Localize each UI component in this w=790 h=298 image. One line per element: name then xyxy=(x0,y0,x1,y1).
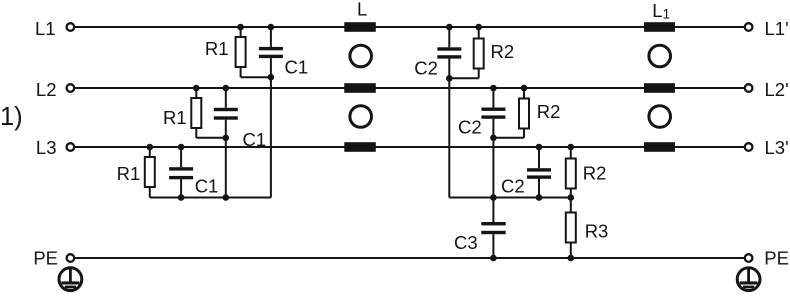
label PE left xyxy=(33,248,58,269)
node R1 top (L1) xyxy=(237,24,244,31)
label L1 left xyxy=(35,18,56,39)
resistor R1 (L1 stage 1) xyxy=(236,27,246,77)
node R1-C1 junction (L1) xyxy=(268,74,275,81)
capacitor C3 xyxy=(481,198,505,259)
wire L1 line xyxy=(75,26,744,28)
ground symbol right (protective earth) xyxy=(737,268,760,291)
resistor R3 xyxy=(566,198,576,259)
terminal L3 left xyxy=(67,143,75,151)
svg-text:L1: L1 xyxy=(35,18,56,39)
choke L1 winding L2 xyxy=(644,83,675,93)
choke L1 core circle upper xyxy=(649,45,671,67)
svg-text:L1: L1 xyxy=(652,0,670,22)
resistor R2 (L1 stage 2) xyxy=(474,27,484,78)
wire R2-C2 bottom (L1 stage 2) xyxy=(449,77,478,79)
label C3 xyxy=(454,232,478,253)
label 1) footnote xyxy=(0,103,23,131)
svg-text:C2: C2 xyxy=(458,117,482,138)
label R2 (L2 stage 2) xyxy=(537,101,561,122)
capacitor C1 (L2 stage 1) xyxy=(214,88,238,138)
svg-text:R2: R2 xyxy=(583,162,607,183)
label L2 left xyxy=(36,79,57,100)
svg-text:L2': L2' xyxy=(765,79,789,100)
node C2-R2 junction (L1) xyxy=(446,75,453,82)
choke L1 winding L1 xyxy=(644,22,675,32)
wire PE line xyxy=(75,257,744,259)
terminal L2' right xyxy=(745,84,753,92)
wire R1-C1 bottom (L2 stage 1) xyxy=(196,137,226,139)
node R2 top (L3) xyxy=(568,144,575,151)
svg-text:C2: C2 xyxy=(414,58,438,79)
wire drop C2 (L2) to bus 2 xyxy=(492,138,494,198)
label L3' right xyxy=(765,137,789,158)
choke L winding L3 xyxy=(344,142,376,152)
terminal PE right xyxy=(745,254,753,262)
node C1 top (L1) xyxy=(268,24,275,31)
choke L winding L2 xyxy=(344,83,376,93)
label L1' right xyxy=(765,18,789,39)
choke L core circle lower xyxy=(350,106,372,128)
wire drop C2 (L1) to bus 2 xyxy=(448,78,450,197)
capacitor C1 (L3 stage 1) xyxy=(169,147,193,198)
wire R1-C1 bottom (L1 stage 1) xyxy=(241,76,271,78)
node C2 top (L1) xyxy=(446,24,453,31)
node R1 top (L3) xyxy=(147,144,154,151)
svg-text:R1: R1 xyxy=(163,107,187,128)
resistor R2 (L2 stage 2) xyxy=(519,88,529,138)
label L3 left xyxy=(36,137,57,158)
terminal L3' right xyxy=(745,143,753,151)
label L choke 1 xyxy=(357,0,367,20)
svg-text:L2: L2 xyxy=(36,79,57,100)
wire R2-C2 bottom (L2 stage 2) xyxy=(493,137,524,139)
wire drop C1 (L2) to star bus xyxy=(225,138,227,198)
label C2 (L3 stage 2) xyxy=(501,176,525,197)
label C2 (L2 stage 2) xyxy=(458,117,482,138)
node C2 top (L3) xyxy=(536,144,543,151)
capacitor C2 (L2 stage 2) xyxy=(481,88,505,138)
node C2 bottom (L3) on bus 2 xyxy=(536,194,543,201)
resistor R2 (L3 stage 2) xyxy=(566,147,576,198)
label C1 (L3 stage 1) xyxy=(195,176,219,197)
node C3 bottom on PE xyxy=(490,255,497,262)
svg-text:1): 1) xyxy=(0,103,23,131)
label C2 (L1 stage 2) xyxy=(414,58,438,79)
svg-text:L1': L1' xyxy=(765,18,789,39)
terminal L2 left xyxy=(67,84,75,92)
label R2 (L3 stage 2) xyxy=(583,162,607,183)
svg-text:L: L xyxy=(357,0,367,20)
node C2 drop (L1) on bus 2 xyxy=(490,194,497,201)
node R2 bottom / R3 top on bus 2 xyxy=(568,194,575,201)
capacitor C2 (L1 stage 2) xyxy=(437,27,461,78)
node C1 top (L2) xyxy=(223,85,230,92)
capacitor C2 (L3 stage 2) xyxy=(527,147,551,198)
svg-text:L3': L3' xyxy=(765,137,789,158)
svg-text:C2: C2 xyxy=(501,176,525,197)
svg-text:C3: C3 xyxy=(454,232,478,253)
wire bus stage 2 xyxy=(449,197,571,199)
node C2-R2 junction (L2) xyxy=(490,135,497,142)
node R1-C1 junction (L2) xyxy=(223,135,230,142)
label R3 xyxy=(585,220,609,241)
svg-text:PE: PE xyxy=(764,248,789,269)
wire L2 line xyxy=(75,87,744,89)
node C2 top (L2) xyxy=(490,85,497,92)
svg-text:R2: R2 xyxy=(491,41,515,62)
choke L1 core circle lower xyxy=(649,106,671,128)
svg-text:PE: PE xyxy=(33,248,58,269)
label C1 (L1 stage 1) xyxy=(285,57,309,78)
node R2 top (L2) xyxy=(521,85,528,92)
resistor R1 (L2 stage 1) xyxy=(191,88,201,138)
svg-text:C1: C1 xyxy=(243,129,267,150)
terminal L1' right xyxy=(745,23,753,31)
svg-text:R1: R1 xyxy=(205,38,229,59)
svg-text:R3: R3 xyxy=(585,220,609,241)
svg-text:C1: C1 xyxy=(195,176,219,197)
label C1 (L2 stage 1) xyxy=(243,129,267,150)
capacitor C1 (L1 stage 1) xyxy=(259,27,283,77)
choke L1 winding L3 xyxy=(644,142,675,152)
label L2' right xyxy=(765,79,789,100)
svg-text:R1: R1 xyxy=(117,163,141,184)
node R3 bottom on PE xyxy=(568,255,575,262)
wire drop C1 (L1) to star bus xyxy=(270,77,272,197)
wire star bus stage 1 xyxy=(150,197,271,199)
terminal L1 left xyxy=(67,23,75,31)
ground symbol left (protective earth) xyxy=(59,268,82,291)
svg-text:L3: L3 xyxy=(36,137,57,158)
label R1 (L2 stage 1) xyxy=(163,107,187,128)
label R1 (L3 stage 1) xyxy=(117,163,141,184)
label L1 choke 2 xyxy=(652,0,670,22)
node R1 top (L2) xyxy=(193,85,200,92)
node R2 top (L1) xyxy=(475,24,482,31)
terminal PE left xyxy=(67,254,75,262)
svg-text:R2: R2 xyxy=(537,101,561,122)
label PE right xyxy=(764,248,789,269)
choke L winding L1 xyxy=(344,22,376,32)
node C1 top (L3) xyxy=(178,144,185,151)
label R2 (L1 stage 2) xyxy=(491,41,515,62)
node L2-drop on bus xyxy=(223,194,230,201)
wire L3 line xyxy=(75,146,744,148)
label R1 (L1 stage 1) xyxy=(205,38,229,59)
choke L core circle upper xyxy=(350,45,372,67)
node C1 bottom on bus (L3) xyxy=(178,194,185,201)
resistor R1 (L3 stage 1) xyxy=(145,147,155,198)
svg-text:C1: C1 xyxy=(285,57,309,78)
